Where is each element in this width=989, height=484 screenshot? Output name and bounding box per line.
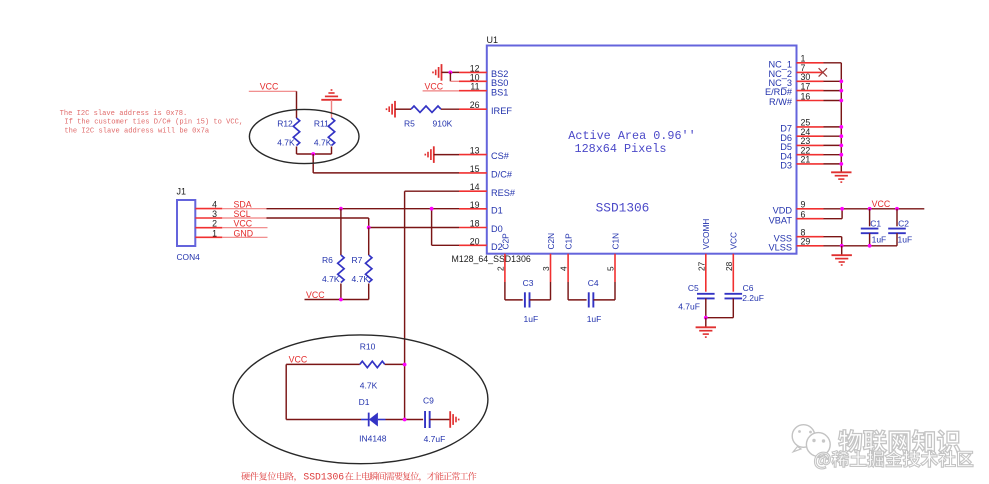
pin 16 R/W# stub bbox=[797, 100, 824, 102]
wire VCC28 down bbox=[732, 282, 734, 292]
wire SCL corner down to D0 level bbox=[368, 218, 370, 228]
pin 13 CS# stub bbox=[459, 154, 487, 156]
pin 15 D/C# stub bbox=[459, 172, 487, 174]
svg-text:CS#: CS# bbox=[491, 151, 510, 161]
junction SCL/D0 corner at R7 bbox=[367, 226, 371, 230]
diode D1 lead left bbox=[361, 419, 369, 421]
wire NC_1 to bus bbox=[824, 62, 842, 64]
wire R11 bottom bbox=[331, 147, 333, 155]
junction C2 top bbox=[895, 207, 899, 211]
svg-text:VDD: VDD bbox=[773, 205, 793, 215]
svg-text:R11: R11 bbox=[314, 118, 329, 128]
wire right pin to bus at y=126.9 bbox=[824, 126, 842, 128]
junction C1 bottom bbox=[868, 244, 872, 248]
junction diode C9 RES# bbox=[403, 418, 407, 422]
svg-text:19: 19 bbox=[470, 200, 480, 210]
svg-text:4.7K: 4.7K bbox=[322, 274, 340, 284]
svg-text:28: 28 bbox=[724, 261, 734, 271]
svg-text:J1: J1 bbox=[177, 187, 187, 197]
svg-text:C2P: C2P bbox=[500, 233, 510, 250]
svg-text:21: 21 bbox=[801, 155, 811, 165]
junction under R12 R11 bbox=[311, 152, 315, 156]
pin 30 NC_3 stub bbox=[797, 80, 824, 82]
svg-text:1uF: 1uF bbox=[587, 314, 602, 324]
svg-text:17: 17 bbox=[801, 81, 811, 91]
junction on SDA at D2 riser bbox=[430, 207, 434, 211]
svg-text:C6: C6 bbox=[743, 283, 754, 293]
pin 23 D5 stub bbox=[797, 144, 824, 146]
svg-text:14: 14 bbox=[470, 182, 480, 192]
junction bus y=100.5 bbox=[839, 99, 843, 103]
pin 8 VSS stub bbox=[797, 236, 824, 238]
wire ground stem C5 bbox=[705, 318, 707, 328]
wire C2P down bbox=[504, 282, 506, 300]
svg-text:D1: D1 bbox=[359, 397, 370, 407]
svg-text:R12: R12 bbox=[277, 118, 293, 128]
pin 9 VDD stub bbox=[797, 208, 824, 210]
svg-text:RES#: RES# bbox=[491, 188, 516, 198]
pin 10 BS0 stub bbox=[459, 80, 487, 82]
pin 14 RES# stub bbox=[459, 190, 487, 192]
wire ground to R5 bbox=[395, 108, 411, 110]
svg-text:D3: D3 bbox=[780, 161, 792, 171]
wire rail under R12 R11 bbox=[297, 153, 332, 155]
svg-text:2.2uF: 2.2uF bbox=[742, 293, 764, 303]
J1 pin 3 stub bbox=[195, 217, 222, 219]
wire R6 top riser bbox=[340, 209, 342, 255]
pin 25 D7 stub bbox=[797, 126, 824, 128]
svg-text:6: 6 bbox=[801, 210, 806, 220]
junction C5 C6 ground bbox=[704, 316, 708, 320]
ground at R5 bbox=[394, 101, 396, 118]
pin 17 E/RD# stub bbox=[797, 90, 824, 92]
wire C2 top riser bbox=[896, 209, 898, 227]
svg-text:C1P: C1P bbox=[564, 233, 574, 250]
wire BS0 bbox=[450, 80, 459, 82]
resistor R6 bbox=[338, 255, 344, 283]
pin 26 IREF stub bbox=[459, 108, 487, 110]
svg-text:BS1: BS1 bbox=[491, 87, 508, 97]
wire VCC rail under R6 R7 bbox=[305, 299, 369, 301]
wire R12 bottom bbox=[296, 147, 298, 155]
svg-text:CON4: CON4 bbox=[177, 252, 201, 262]
svg-text:3: 3 bbox=[212, 209, 217, 219]
watermark wechat icon bbox=[792, 425, 830, 460]
svg-text:SSD1306: SSD1306 bbox=[596, 201, 650, 216]
pin 4 C1P stub bbox=[567, 254, 569, 282]
ground at C9 bbox=[449, 411, 451, 428]
junction bus y=81.3 bbox=[839, 79, 843, 83]
resistor R10 bbox=[360, 361, 385, 367]
ellipse around reset circuit bbox=[233, 335, 488, 464]
svg-text:4.7K: 4.7K bbox=[352, 274, 370, 284]
diode D1 lead right bbox=[378, 419, 386, 421]
svg-text:11: 11 bbox=[470, 82, 479, 92]
svg-text:20: 20 bbox=[470, 236, 480, 246]
chip U1 body (SSD1306 module outline) bbox=[487, 46, 797, 254]
svg-text:26: 26 bbox=[470, 100, 480, 110]
wire SCL to pin 18 D0 bbox=[369, 227, 459, 229]
svg-text:C1N: C1N bbox=[610, 233, 620, 250]
pin 28 VCC stub bbox=[732, 254, 734, 282]
svg-text:the I2C slave address will be: the I2C slave address will be 0x7a bbox=[64, 127, 209, 135]
svg-text:U1: U1 bbox=[487, 35, 499, 45]
pin 24 D6 stub bbox=[797, 135, 824, 137]
svg-text:C2: C2 bbox=[898, 219, 909, 229]
svg-text:4.7uF: 4.7uF bbox=[424, 434, 446, 444]
svg-text:128x64 Pixels: 128x64 Pixels bbox=[574, 142, 666, 156]
svg-text:4.7K: 4.7K bbox=[277, 138, 295, 148]
wire C2P to C3 bbox=[505, 299, 523, 301]
pin 5 C1N stub bbox=[614, 254, 616, 282]
svg-text:IN4148: IN4148 bbox=[359, 434, 387, 444]
wire left drop of reset circuit bbox=[285, 364, 287, 419]
watermark text line 2 bbox=[814, 452, 830, 469]
junction bus y=154.7 bbox=[839, 153, 843, 157]
svg-text:VBAT: VBAT bbox=[769, 215, 793, 225]
pin 18 D0 stub bbox=[459, 227, 487, 229]
wire VCC row from J1 bbox=[222, 227, 267, 229]
svg-text:R/W#: R/W# bbox=[769, 97, 793, 107]
pin 27 VCOMH stub bbox=[705, 254, 707, 282]
watermark text line 1 bbox=[838, 430, 861, 453]
svg-text:VCOMH: VCOMH bbox=[701, 219, 711, 250]
svg-text:5: 5 bbox=[606, 266, 616, 271]
wire RES# vertical drop bbox=[404, 191, 406, 419]
wire CS# to ground bbox=[434, 154, 459, 156]
svg-text:2: 2 bbox=[212, 219, 217, 229]
wire C4 to C1N bbox=[593, 299, 615, 301]
svg-text:SSD1306: SSD1306 bbox=[303, 471, 344, 482]
wire VBAT riser bbox=[841, 209, 843, 219]
junction bus y=163.9 bbox=[839, 162, 843, 166]
power bar above R11 bbox=[321, 99, 341, 101]
wire VLSS rail bbox=[824, 245, 898, 247]
pin 7 NC_2 stub bbox=[797, 71, 824, 73]
wire C1 bottom riser bbox=[869, 233, 871, 246]
wire VSS bbox=[824, 236, 842, 238]
ground at VSS rail bbox=[832, 254, 852, 256]
wire C6 to ground node bbox=[706, 317, 734, 319]
svg-text:C2N: C2N bbox=[546, 233, 556, 250]
pin 2 C2P stub bbox=[504, 254, 506, 282]
capacitor C6 bbox=[725, 293, 743, 295]
pin 12 BS2 stub bbox=[459, 71, 487, 73]
resistor R12 bbox=[293, 118, 299, 146]
wire C1P to C4 bbox=[568, 299, 587, 301]
ground at right bus bbox=[831, 171, 851, 173]
svg-text:9: 9 bbox=[801, 200, 806, 210]
svg-text:27: 27 bbox=[696, 261, 706, 271]
svg-text:E/RD#: E/RD# bbox=[765, 87, 793, 97]
ground at BS2 bbox=[441, 64, 443, 81]
capacitor C4 bbox=[588, 292, 590, 307]
svg-text:If the customer ties D/C# (pin: If the customer ties D/C# (pin 15) to VC… bbox=[64, 119, 243, 127]
svg-text:13: 13 bbox=[470, 146, 480, 156]
wire diode to RES# node bbox=[386, 419, 424, 421]
svg-text:29: 29 bbox=[801, 237, 811, 247]
svg-text:4.7uF: 4.7uF bbox=[678, 301, 700, 311]
svg-text:C5: C5 bbox=[688, 283, 699, 293]
wire right pin to bus at y=145.4 bbox=[824, 144, 842, 146]
junction VBAT/VDD bbox=[840, 207, 844, 211]
pin 29 VLSS stub bbox=[797, 245, 824, 247]
ground at CS# bbox=[433, 146, 435, 163]
svg-text:2: 2 bbox=[495, 266, 505, 271]
junction on SDA at R6 bbox=[339, 207, 343, 211]
wire to diode anode bbox=[286, 419, 361, 421]
svg-text:VCC: VCC bbox=[306, 290, 325, 300]
svg-text:C1: C1 bbox=[870, 219, 881, 229]
wire R11 top riser bbox=[331, 100, 333, 118]
svg-text:VCC: VCC bbox=[872, 199, 891, 209]
svg-text:3: 3 bbox=[541, 266, 551, 271]
svg-text:IREF: IREF bbox=[491, 106, 512, 116]
pin 21 D3 stub bbox=[797, 163, 824, 165]
svg-text:NC_1: NC_1 bbox=[769, 59, 793, 69]
junction BS2/BS0 bbox=[449, 71, 453, 75]
wire D2 riser from D1 net bbox=[431, 209, 433, 246]
svg-text:The I2C slave address is 0x78.: The I2C slave address is 0x78. bbox=[60, 110, 188, 118]
J1 pin 2 stub bbox=[195, 227, 222, 229]
wire R7 top riser bbox=[368, 228, 370, 256]
junction bus y=145.4 bbox=[839, 144, 843, 148]
wire right pin to bus at y=100.5 bbox=[824, 100, 842, 102]
junction bus y=90.6 bbox=[839, 89, 843, 93]
svg-text:M128_64_SSD1306: M128_64_SSD1306 bbox=[452, 254, 531, 264]
svg-text:4: 4 bbox=[559, 266, 569, 271]
junction R10 RES# bbox=[403, 363, 407, 367]
wire BS2 to ground bbox=[442, 71, 460, 73]
svg-text:VCC: VCC bbox=[729, 232, 739, 250]
wire VCC to pin 11 BS1 bbox=[423, 90, 459, 92]
svg-text:VCC: VCC bbox=[260, 82, 279, 92]
wire SCL from J1 bbox=[267, 217, 369, 219]
ellipse around R12 R11 bbox=[249, 109, 359, 163]
wire C3 to C2N bbox=[530, 299, 551, 301]
svg-text:4.7K: 4.7K bbox=[314, 138, 332, 148]
ground at C5 C6 bbox=[696, 326, 716, 328]
pin 20 D2 stub bbox=[459, 244, 487, 246]
wire D2 to pin 20 bbox=[432, 244, 459, 246]
junction bus y=126.9 bbox=[839, 125, 843, 129]
wire C6 bottom bbox=[732, 298, 734, 317]
wire VCC underline to R12 bbox=[249, 90, 297, 92]
wire C5 bottom to ground node bbox=[705, 298, 707, 317]
wire R12 top riser bbox=[296, 91, 298, 118]
svg-text:4.7K: 4.7K bbox=[360, 380, 378, 390]
svg-text:VCC: VCC bbox=[289, 355, 308, 365]
bus vertical right of chip bbox=[840, 63, 842, 173]
wire R10 to RES# node bbox=[385, 363, 405, 365]
capacitor C9 bbox=[424, 411, 426, 428]
pin 22 D4 stub bbox=[797, 154, 824, 156]
junction VSS/VLSS ground bbox=[840, 244, 844, 248]
junction C1 top bbox=[868, 207, 872, 211]
wire C2 bottom riser bbox=[896, 233, 898, 246]
pin 6 VBAT stub bbox=[797, 218, 824, 220]
wire C1P down bbox=[567, 282, 569, 300]
junction bus y=136.2 bbox=[839, 134, 843, 138]
svg-text:VLSS: VLSS bbox=[769, 242, 793, 252]
wire right pin to bus at y=154.7 bbox=[824, 154, 842, 156]
svg-text:D0: D0 bbox=[491, 224, 503, 234]
junction R6 bottom VCC bbox=[339, 298, 343, 302]
svg-text:1uF: 1uF bbox=[872, 235, 887, 245]
svg-text:D1: D1 bbox=[491, 205, 503, 215]
wire GND row from J1 bbox=[222, 236, 267, 238]
wire RES# from pin 14 bbox=[405, 190, 459, 192]
wire R6 bottom bbox=[340, 284, 342, 300]
no-connect X on pin 7 bbox=[819, 68, 827, 76]
J1 pin 1 stub bbox=[195, 236, 222, 238]
svg-text:VCC: VCC bbox=[425, 81, 444, 91]
capacitor C5 bbox=[697, 293, 715, 295]
wire VBAT bbox=[824, 218, 843, 220]
svg-text:R7: R7 bbox=[352, 255, 363, 265]
resistor R5 bbox=[411, 106, 441, 112]
svg-text:1uF: 1uF bbox=[898, 235, 913, 245]
wire R5 to pin 26 IREF bbox=[441, 108, 459, 110]
resistor R11 bbox=[328, 118, 334, 146]
wire C9 to ground bbox=[430, 419, 451, 421]
svg-text:16: 16 bbox=[801, 91, 811, 101]
capacitor C1 bbox=[861, 228, 879, 230]
diode D1 triangle bbox=[369, 413, 378, 427]
resistor R7 bbox=[366, 255, 372, 283]
wire SDA label segment bbox=[222, 208, 267, 210]
wire right pin to bus at y=163.9 bbox=[824, 163, 842, 165]
svg-text:1: 1 bbox=[212, 228, 217, 238]
svg-text:R5: R5 bbox=[404, 118, 415, 128]
wire ground stem VSS bbox=[841, 246, 843, 255]
capacitor C3 bbox=[524, 292, 526, 307]
svg-text:15: 15 bbox=[470, 164, 480, 174]
svg-text:1: 1 bbox=[801, 54, 806, 64]
diode D1 cathode bar bbox=[368, 413, 370, 427]
wire R7 bottom bbox=[368, 284, 370, 300]
pin 3 C2N stub bbox=[550, 254, 552, 282]
svg-text:C4: C4 bbox=[588, 278, 599, 288]
wire VDD rail bbox=[824, 208, 925, 210]
wire SDA from J1 to pin 19 D1 bbox=[267, 208, 460, 210]
pin 11 BS1 stub bbox=[459, 90, 487, 92]
svg-text:C3: C3 bbox=[523, 278, 534, 288]
svg-text:R6: R6 bbox=[322, 255, 333, 265]
svg-text:1uF: 1uF bbox=[524, 314, 539, 324]
svg-text:910K: 910K bbox=[433, 118, 453, 128]
wire C1 top riser bbox=[869, 209, 871, 227]
wire right pin to bus at y=81.3 bbox=[824, 80, 842, 82]
wire VSS riser bbox=[841, 237, 843, 246]
svg-text:C9: C9 bbox=[423, 396, 434, 406]
pin 1 NC_1 stub bbox=[797, 62, 824, 64]
wire C2N down bbox=[550, 282, 552, 300]
pin 19 D1 stub bbox=[459, 208, 487, 210]
wire VCOMH down bbox=[705, 282, 707, 292]
connector J1 body bbox=[177, 200, 195, 246]
wire D/C# drop bbox=[312, 154, 314, 173]
wire C1N down bbox=[614, 282, 616, 300]
note hardware reset (chinese) bbox=[241, 472, 250, 480]
svg-text:D/C#: D/C# bbox=[491, 170, 513, 180]
capacitor C2 bbox=[888, 228, 906, 230]
wire right pin to bus at y=90.6 bbox=[824, 90, 842, 92]
wire to pin 15 D/C# bbox=[313, 172, 459, 174]
wire SCL label segment bbox=[222, 217, 267, 219]
svg-text:R10: R10 bbox=[360, 342, 376, 352]
wire right pin to bus at y=136.2 bbox=[824, 135, 842, 137]
J1 pin 4 stub bbox=[195, 208, 222, 210]
wire VCC to R10 bbox=[286, 363, 360, 365]
wire BS0 riser bbox=[449, 72, 451, 81]
svg-text:18: 18 bbox=[470, 219, 480, 229]
